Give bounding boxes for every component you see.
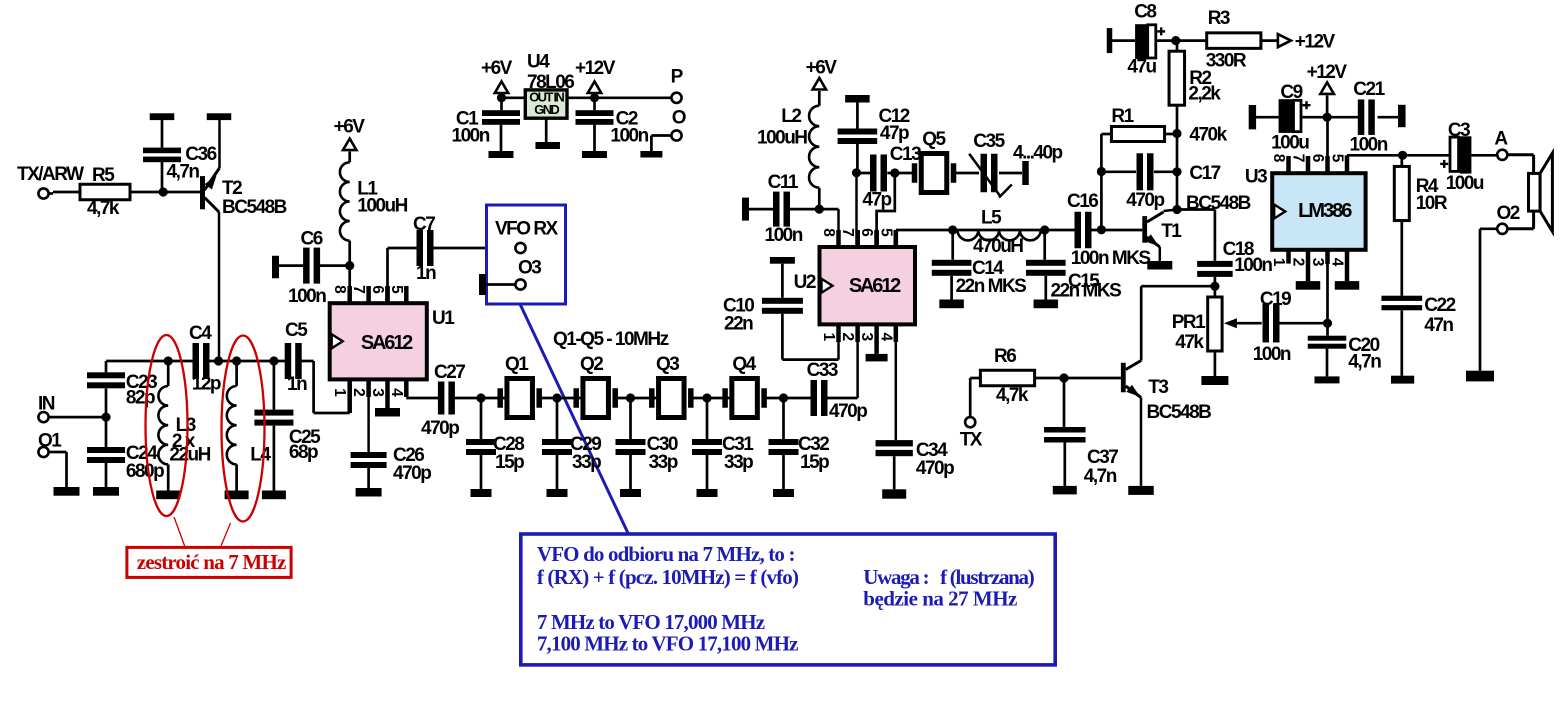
U2 bottom pins 1 2 3 4 [820,324,896,440]
svg-text:Uwaga : f (lustrzana): Uwaga : f (lustrzana) [863,565,1034,589]
node C1/+6V [497,93,506,102]
terminal bar C6 left [272,256,303,279]
svg-text:100u: 100u [1446,173,1484,194]
svg-text:100n: 100n [1350,135,1388,156]
svg-text:15p: 15p [495,452,524,473]
terminal P [671,67,684,103]
wire C19 to node [1279,322,1327,325]
wire C10 to U2 pin 1 [782,358,838,361]
ground C29 [547,489,568,497]
label Q1-Q5 10MHz [553,329,669,350]
svg-text:BC548B: BC548B [1186,193,1251,214]
wire +6V to U4 [502,96,526,99]
capacitor C11 [765,172,803,246]
ground C34 [882,489,906,498]
ground T3 emitter [1128,486,1154,495]
svg-text:VFO RX: VFO RX [495,219,559,240]
resistor R2 [1169,51,1221,105]
svg-text:+12V: +12V [1295,32,1336,53]
crystal Q1 [497,354,542,418]
U1 top pins 8 7 6 5 [331,285,406,303]
wire U4 GND [545,118,548,142]
svg-text:2: 2 [350,388,367,397]
svg-text:47k: 47k [1175,332,1204,353]
svg-text:SA612: SA612 [361,332,413,354]
resistor R6 [980,346,1034,406]
wire to C17 [1101,170,1136,173]
svg-text:Q3: Q3 [656,354,679,375]
svg-text:4,7n: 4,7n [167,162,200,183]
node C19/C20/U3 pin 3 [1323,319,1332,328]
terminal TX/ARW [17,164,84,199]
svg-text:C27: C27 [434,362,465,383]
blue leader line VFO RX to note [520,304,628,534]
svg-text:100uH: 100uH [757,128,807,149]
svg-text:R1: R1 [1111,106,1134,127]
svg-text:7,100 MHz to VFO 17,100 MHz: 7,100 MHz to VFO 17,100 MHz [537,632,798,656]
svg-text:C6: C6 [301,228,323,249]
wire C27 to Q1 [455,397,507,400]
terminal bar C35 right [1022,161,1029,185]
wire O1 to ground [48,452,66,487]
svg-text:L4: L4 [250,445,271,466]
U1 bottom pins 1 2 3 4 [331,379,406,452]
ground U3 pin 4 [1335,281,1360,290]
ground above C36 [150,113,175,147]
svg-text:4,7k: 4,7k [996,385,1029,406]
+12V supply U3 [1307,62,1348,117]
svg-text:C35: C35 [973,131,1005,152]
ground O [640,151,662,158]
ground U4 [535,142,560,149]
svg-text:L5: L5 [981,208,1002,229]
svg-text:100n: 100n [765,225,803,246]
svg-text:C16: C16 [1067,191,1098,212]
terminal O [671,108,685,141]
svg-text:100n: 100n [1234,255,1272,276]
wire node to C21 [1327,116,1359,119]
capacitor C3 electrolytic [1440,120,1484,194]
wire C17 to R2 leg [1154,170,1177,173]
svg-text:T3: T3 [1148,377,1168,398]
capacitor C13 [857,144,922,211]
ground above C12 [845,95,870,129]
+6V supply L2 [806,58,838,106]
red note box zestroic na 7 MHz [127,547,291,577]
wire C5 to U1 pin 1 [302,361,350,413]
svg-text:7: 7 [1290,154,1307,163]
svg-text:+12V: +12V [1307,62,1348,83]
svg-text:4,7k: 4,7k [87,198,120,219]
svg-text:IN: IN [38,394,55,415]
svg-text:+6V: +6V [481,58,513,79]
svg-text:T2: T2 [222,178,242,199]
terminal bar C11 left [742,198,773,221]
wire C16 to T1 base [1091,229,1142,232]
capacitor C5 [285,320,309,395]
ground C31 [697,489,718,497]
crystal Q5 [912,129,957,193]
svg-text:1: 1 [820,332,837,341]
svg-text:Q1: Q1 [505,354,529,375]
svg-text:1n: 1n [416,263,436,284]
wire C11 to node [790,208,819,211]
capacitor C4 [189,323,221,395]
svg-text:TX/ARW: TX/ARW [17,164,84,185]
capacitor C24 [87,417,164,487]
wire L4 to C5 [237,360,285,363]
node C8/R3/R2 [1171,36,1180,45]
svg-text:3: 3 [1309,258,1326,267]
svg-text:1n: 1n [287,374,307,395]
svg-text:A: A [1494,129,1508,150]
wire IN to node [48,416,106,419]
VFO RX connector box [487,205,566,304]
svg-text:f (RX) + f (pcz. 10MHz) = f (v: f (RX) + f (pcz. 10MHz) = f (vfo) [537,565,799,589]
ground C15 [1034,300,1059,309]
svg-text:C11: C11 [768,172,799,193]
ground O2 [1466,371,1494,382]
svg-text:L2: L2 [781,106,801,127]
capacitor C19 [1253,289,1291,365]
capacitor C7 [413,214,436,284]
wire PR1 to ground [1214,351,1217,376]
wire R1 left leg [1100,134,1103,230]
capacitor C10 [723,296,803,360]
wire R2 to T1 collector node [1176,134,1179,210]
wire top to L3 [106,360,168,363]
ground above T2 emitter [207,113,232,120]
svg-text:Q2: Q2 [580,354,603,375]
wire R6 to T3 base [1035,377,1121,380]
capacitor C25 [254,361,321,491]
node L2/C11 [815,205,824,214]
terminal IN [38,394,55,423]
svg-text:4: 4 [1329,258,1346,267]
svg-text:4,7n: 4,7n [1348,352,1381,373]
svg-text:22n MKS: 22n MKS [1051,281,1122,302]
ground C32 [773,489,794,497]
svg-text:U4: U4 [527,52,550,73]
transistor T2 BC548B [200,120,287,361]
wire node to U2 pin 6 [877,173,895,247]
svg-text:330R: 330R [1206,51,1247,72]
crystal Q4 [722,354,767,418]
svg-text:4: 4 [388,388,405,397]
svg-text:O1: O1 [38,431,62,452]
node C30/Q3 [626,393,635,402]
svg-text:+6V: +6V [334,116,366,137]
svg-text:C7: C7 [413,214,435,235]
capacitor C33 [807,360,868,422]
svg-text:5: 5 [388,285,405,294]
wire L3 to C4 [168,360,193,363]
svg-text:470p: 470p [1126,190,1164,211]
svg-text:zestroić na 7 MHz: zestroić na 7 MHz [137,550,286,574]
svg-text:6: 6 [858,228,875,237]
svg-text:2,2k: 2,2k [1188,84,1221,105]
inductor L3 [158,361,210,491]
svg-text:R3: R3 [1208,8,1230,29]
svg-text:100u: 100u [1271,133,1309,154]
node L3 top [164,356,173,365]
node C18/PR1 [1210,282,1219,291]
wire Q2 to Q3 [618,397,659,400]
resistor R4 [1394,155,1448,295]
capacitor C30 [616,398,678,489]
terminal bar C21 right [1378,105,1406,127]
node T2 collector/C4 [214,356,223,365]
svg-text:R5: R5 [92,165,115,186]
svg-text:U1: U1 [432,308,455,329]
wire TX/ARW to R5 [48,192,80,194]
svg-text:C22: C22 [1424,295,1455,316]
wire U2 pin 5 to L5 [896,230,953,247]
inductor L5 [953,208,1045,258]
svg-text:1: 1 [1270,258,1287,267]
red leader line from L4 ellipse [221,523,231,546]
svg-text:33p: 33p [572,452,601,473]
node L5 right/C15 [1040,225,1049,234]
svg-text:8: 8 [1270,154,1287,163]
svg-text:GND: GND [534,102,559,117]
svg-text:R6: R6 [994,346,1016,367]
svg-text:C37: C37 [1087,447,1118,468]
ground C25 [262,491,286,500]
capacitor C1 [452,98,521,151]
svg-text:O2: O2 [1497,203,1520,224]
svg-text:22uH: 22uH [169,445,210,466]
red ellipse around L4 [222,336,265,522]
svg-text:8: 8 [820,228,837,237]
wire U3 pin 5 out [1347,154,1403,157]
U2 top pins 8 7 6 5 [820,228,896,247]
ground O1 [54,487,80,496]
svg-text:VFO do odbioru na 7 MHz, to :: VFO do odbioru na 7 MHz, to : [537,542,795,566]
svg-text:SA612: SA612 [849,275,901,297]
wire O2 to ground [1480,229,1497,371]
node C25/C5 [269,356,278,365]
wire U4 to P [567,96,672,99]
terminal A [1494,129,1508,160]
svg-text:Q1-Q5 - 10MHz: Q1-Q5 - 10MHz [553,329,669,350]
resistor R1 [1101,106,1177,142]
wire C9 to node [1301,116,1327,119]
wire pin6 to C7 [388,247,418,250]
node C29/Q2 [552,393,561,402]
svg-text:C19: C19 [1260,289,1291,310]
svg-text:C4: C4 [189,323,212,344]
svg-text:4...40p: 4...40p [1013,143,1063,164]
node L5 left/C14 [948,225,957,234]
svg-text:O: O [672,108,686,129]
VFO RX lower stub [479,274,516,295]
wire C33 to U2 pin 2 [827,340,857,398]
speaker [1508,153,1553,231]
svg-text:22n MKS: 22n MKS [956,276,1027,297]
ground L4 [225,491,249,500]
ground U1 pin 3 [375,408,400,417]
svg-text:C9: C9 [1280,82,1302,103]
svg-text:33p: 33p [724,452,753,473]
svg-text:1: 1 [331,388,348,397]
svg-text:7 MHz to VFO 17,000 MHz: 7 MHz to VFO 17,000 MHz [537,610,765,634]
wire Q4 to C33 [767,397,812,400]
capacitor C37 [1044,378,1118,487]
red ellipse around L3 [146,335,188,516]
ground C30 [620,489,641,497]
wire C4 to L4 [209,360,236,363]
svg-text:O3: O3 [518,258,541,279]
blue note box VFO formulas [521,534,1055,665]
VFO RX terminals O3 [515,243,541,290]
node C32/C33 [779,393,788,402]
capacitor C22 [1381,295,1455,376]
node C31/Q4 [702,393,711,402]
wire U1 pin 4 to C27 [406,397,438,400]
ground L3 [156,491,180,500]
terminal TX [960,417,983,450]
wire node to C3 [1403,154,1450,157]
terminal bar C9 left [1249,105,1279,129]
svg-text:T1: T1 [1161,221,1182,242]
ground C14 [939,300,964,309]
wire C18 node to T3 collector [1141,286,1215,360]
transistor T3 BC548B [1121,361,1211,486]
+6V supply at U4 [481,58,513,98]
ground above C10 [770,257,795,298]
svg-text:7: 7 [839,228,856,237]
svg-text:BC548B: BC548B [1147,402,1212,423]
svg-text:C33: C33 [807,360,838,381]
svg-text:6: 6 [1309,154,1326,163]
node IN/C23/C24 [101,413,110,422]
trimmer capacitor C35 [969,131,1062,198]
capacitor C8 electrolytic [1127,2,1165,78]
svg-text:100uH: 100uH [357,196,407,217]
mixer U2 SA612 box [794,247,915,324]
svg-text:100n MKS: 100n MKS [1071,248,1151,269]
svg-text:5: 5 [1329,154,1346,163]
svg-text:3: 3 [858,332,875,341]
svg-text:47u: 47u [1127,57,1156,78]
U3 bottom pins 1 2 3 4 [1270,250,1347,323]
capacitor C29 [542,398,601,489]
resistor R5 [80,165,130,219]
svg-text:22n: 22n [724,314,753,335]
inductor L2 [757,106,819,209]
ground C24 [93,487,119,496]
wire R6 to TX [970,378,980,418]
svg-text:15p: 15p [800,452,829,473]
+12V supply at U4 [575,58,616,98]
node L1/C6/U1 pin 8 [345,261,354,270]
ground U3 pin 2 [1296,281,1321,290]
svg-text:Q4: Q4 [732,354,756,375]
svg-text:C5: C5 [285,320,308,341]
capacitor C6 [288,228,326,307]
capacitor C12 [838,106,910,173]
+6V supply L1 [334,116,366,162]
svg-text:33p: 33p [649,452,678,473]
capacitor C21 [1350,79,1388,156]
node R6/C37 [1059,373,1068,382]
potentiometer PR1 47k [1172,297,1222,353]
node C13/Q5 [890,168,899,177]
capacitor C17 [1126,153,1220,211]
wire Q3 to Q4 [693,397,732,400]
svg-text:C8: C8 [1134,2,1156,23]
svg-text:100n: 100n [610,126,648,147]
svg-text:4,7n: 4,7n [1084,466,1117,487]
svg-text:680p: 680p [126,461,164,482]
node +12V/C9/C21 [1323,113,1332,122]
svg-text:P: P [671,67,684,88]
wire C8 to R3 [1156,39,1207,42]
capacitor C23 [87,361,157,417]
inductor L1 [340,162,408,303]
capacitor C36 [143,144,217,192]
node R5/C36/T2 base [159,187,168,196]
svg-text:C17: C17 [1189,163,1220,184]
svg-text:C21: C21 [1353,79,1385,100]
capacitor C14 [932,230,1026,300]
crystal Q3 [649,354,694,418]
node pin5/R4/C3 [1398,151,1407,160]
terminal O2 [1497,203,1520,234]
wire R5 to node [130,191,163,194]
resistor R3 [1206,8,1261,72]
wire to PR1 [1214,286,1217,297]
svg-text:12p: 12p [192,374,221,395]
amplifier U3 LM386 box [1245,167,1366,250]
svg-text:PR1: PR1 [1172,312,1206,333]
+12V arrow right [1261,32,1336,53]
capacitor C26 [351,445,432,488]
ground C28 [471,489,492,497]
regulator U4 78L06 [525,52,574,119]
ground C22 [1391,376,1414,384]
wire C7 to VFO RX [433,247,516,250]
svg-text:5: 5 [877,228,894,237]
capacitor C27 [421,362,465,439]
svg-text:2: 2 [1290,258,1307,267]
svg-text:+6V: +6V [806,58,838,79]
wire node to T2 base [163,191,200,194]
svg-text:470p: 470p [829,401,867,422]
svg-text:100n: 100n [1253,344,1291,365]
node C28/Q1 [476,393,485,402]
capacitor C2 [576,98,649,151]
svg-text:68p: 68p [289,442,318,463]
svg-text:będzie na 27 MHz: będzie na 27 MHz [863,587,1017,611]
node C17 right [1172,167,1181,176]
wire R2 top leg [1176,41,1179,134]
ground C26 [356,488,382,497]
svg-text:U3: U3 [1245,167,1267,188]
op-amp/mixer U1 SA612 box [330,303,456,379]
svg-text:U2: U2 [794,272,816,293]
wire O to ground [651,136,671,152]
ground C1 [489,151,514,158]
svg-text:100n: 100n [452,126,490,147]
capacitor C32 [769,398,830,489]
node L4 top [232,356,241,365]
wire C3 to A [1471,154,1497,157]
terminal O1 [38,431,62,458]
terminal bar C8 left [1107,28,1135,53]
svg-text:47p: 47p [880,123,909,144]
